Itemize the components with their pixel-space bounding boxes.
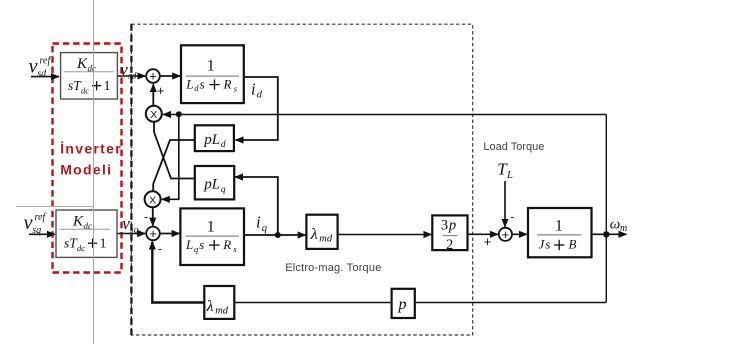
block pLq (195, 166, 234, 199)
svg-text:s: s (200, 76, 205, 91)
wire iq branch to pLq (235, 177, 278, 235)
wire d-sum to Ld block (160, 75, 180, 77)
svg-text:sq: sq (32, 225, 41, 236)
svg-text:L: L (185, 237, 193, 252)
label vsq (122, 214, 138, 236)
label minus above q-sum (144, 210, 148, 224)
wire pLq to upper multiplier (154, 122, 195, 178)
svg-text:sq: sq (130, 225, 139, 235)
junction omega m (603, 231, 609, 237)
block lambda-md torque (306, 215, 337, 249)
label Inverter Modeli (60, 141, 122, 178)
wire vsd ref input (31, 76, 59, 78)
block Kdc d-axis (61, 53, 118, 99)
svg-text:i: i (256, 212, 261, 231)
svg-text:ω: ω (610, 217, 621, 233)
svg-text:pL: pL (203, 176, 220, 192)
svg-text:λ: λ (310, 226, 318, 243)
svg-text:1: 1 (100, 237, 107, 252)
svg-text:Elctro-mag. Torque: Elctro-mag. Torque (285, 262, 381, 274)
svg-text:s: s (545, 237, 550, 252)
wire upper multiplier to d-sum (152, 84, 154, 105)
summing junction q-axis (146, 226, 160, 241)
wire feedback to p block (416, 302, 606, 304)
block 1/(Js+B) (528, 208, 592, 257)
wire lambda-md to 3p2 block (338, 234, 432, 236)
label Load Torque (483, 141, 544, 153)
svg-text:+: + (149, 226, 157, 241)
wire iq to lambda-md (244, 234, 306, 236)
label vsq ref (24, 212, 47, 236)
svg-text:2: 2 (446, 237, 453, 253)
svg-text:+: + (157, 83, 165, 98)
block Kdc q-axis (56, 210, 117, 257)
svg-text:p: p (398, 296, 407, 313)
label plus torque sum (484, 234, 492, 249)
label plus d-sum (157, 83, 165, 98)
label vsd ref (29, 55, 52, 79)
svg-text:-: - (144, 210, 148, 224)
svg-text:md: md (319, 233, 333, 244)
svg-text:q: q (221, 185, 226, 195)
wire vsq ref input (29, 233, 55, 235)
svg-text:L: L (185, 76, 193, 91)
svg-text:İnverter: İnverter (60, 141, 122, 157)
summing junction torque (499, 227, 512, 242)
wire torque sum to Js block (512, 233, 527, 235)
block 1/(Lqs+Rs) (180, 208, 244, 265)
label Elctro-mag. Torque (285, 262, 381, 274)
wire omega feedback vertical (605, 115, 607, 303)
svg-text:sd: sd (37, 68, 47, 79)
svg-text:m: m (620, 223, 627, 234)
svg-text:q: q (262, 223, 267, 234)
svg-text:i: i (251, 79, 256, 98)
junction omega to multipliers (176, 111, 182, 117)
svg-text:Load Torque: Load Torque (483, 141, 544, 153)
svg-text:dc: dc (77, 243, 85, 253)
multiplier lower (145, 191, 161, 207)
svg-text:K: K (76, 56, 88, 72)
svg-text:+: + (502, 227, 510, 242)
svg-text:B: B (569, 237, 577, 252)
svg-text:ref: ref (35, 212, 47, 223)
svg-text:Modeli: Modeli (60, 161, 112, 177)
svg-text:md: md (215, 305, 229, 316)
wire lambda-md to q-sum bottom (152, 242, 204, 303)
wire lower multiplier to q-sum (152, 207, 154, 225)
wire 3p2 to torque sum (468, 233, 499, 235)
svg-text:d: d (194, 83, 199, 93)
svg-text:+: + (149, 69, 157, 84)
svg-text:sd: sd (128, 71, 137, 81)
svg-text:λ: λ (206, 298, 214, 315)
svg-text:ref: ref (40, 55, 52, 66)
wire q-sum to Lq block (161, 233, 180, 235)
block 1/(Lds+Rs) (181, 45, 244, 103)
multiplier upper (146, 106, 162, 122)
svg-text:R: R (223, 76, 232, 91)
svg-text:K: K (72, 214, 84, 230)
svg-text:dc: dc (81, 86, 89, 96)
svg-text:1: 1 (104, 79, 111, 94)
motor model dashed box (131, 24, 472, 335)
svg-text:+: + (484, 234, 492, 249)
label iq (256, 212, 267, 234)
svg-text:1: 1 (207, 58, 215, 75)
inverter model red dashed box (53, 44, 122, 273)
svg-text:X: X (150, 109, 157, 121)
wire p to lambda-md bottom (234, 302, 391, 304)
svg-text:1: 1 (555, 217, 563, 234)
svg-text:1: 1 (207, 218, 215, 235)
label minus torque sum (510, 210, 514, 224)
guide line horizontal (16, 206, 94, 208)
svg-text:3: 3 (441, 218, 448, 234)
svg-text:R: R (222, 237, 231, 252)
summing junction d-axis (146, 69, 160, 84)
block 3p/2 (432, 215, 467, 253)
label TL (497, 160, 513, 182)
wire omega branch to lower multiplier (162, 114, 179, 199)
block pLd (195, 125, 234, 151)
wire vsq to q-sum (117, 233, 145, 235)
svg-text:d: d (221, 140, 226, 150)
boundary bold dashed line (130, 24, 132, 335)
block p (392, 289, 415, 318)
svg-text:s: s (199, 237, 204, 252)
svg-text:L: L (506, 170, 513, 181)
guide line vertical (93, 0, 95, 344)
svg-text:-: - (510, 210, 514, 224)
wire id to pLd (236, 77, 278, 140)
junction iq (275, 232, 281, 238)
label vsd (120, 60, 136, 82)
label minus below q-sum (158, 242, 162, 256)
svg-text:X: X (149, 194, 156, 206)
label id (251, 79, 263, 100)
wire vsd to d-sum (117, 75, 145, 77)
svg-text:-: - (158, 242, 162, 256)
svg-text:p: p (448, 218, 456, 234)
svg-text:pL: pL (203, 132, 220, 148)
wire TL input (504, 181, 506, 227)
svg-text:d: d (257, 90, 263, 101)
wire omega m output (592, 233, 627, 235)
block lambda-md feedback (204, 286, 234, 319)
wire omega feedback horizontal (163, 114, 606, 116)
label omega m (610, 217, 627, 235)
wire pLd to lower multiplier (153, 140, 195, 191)
